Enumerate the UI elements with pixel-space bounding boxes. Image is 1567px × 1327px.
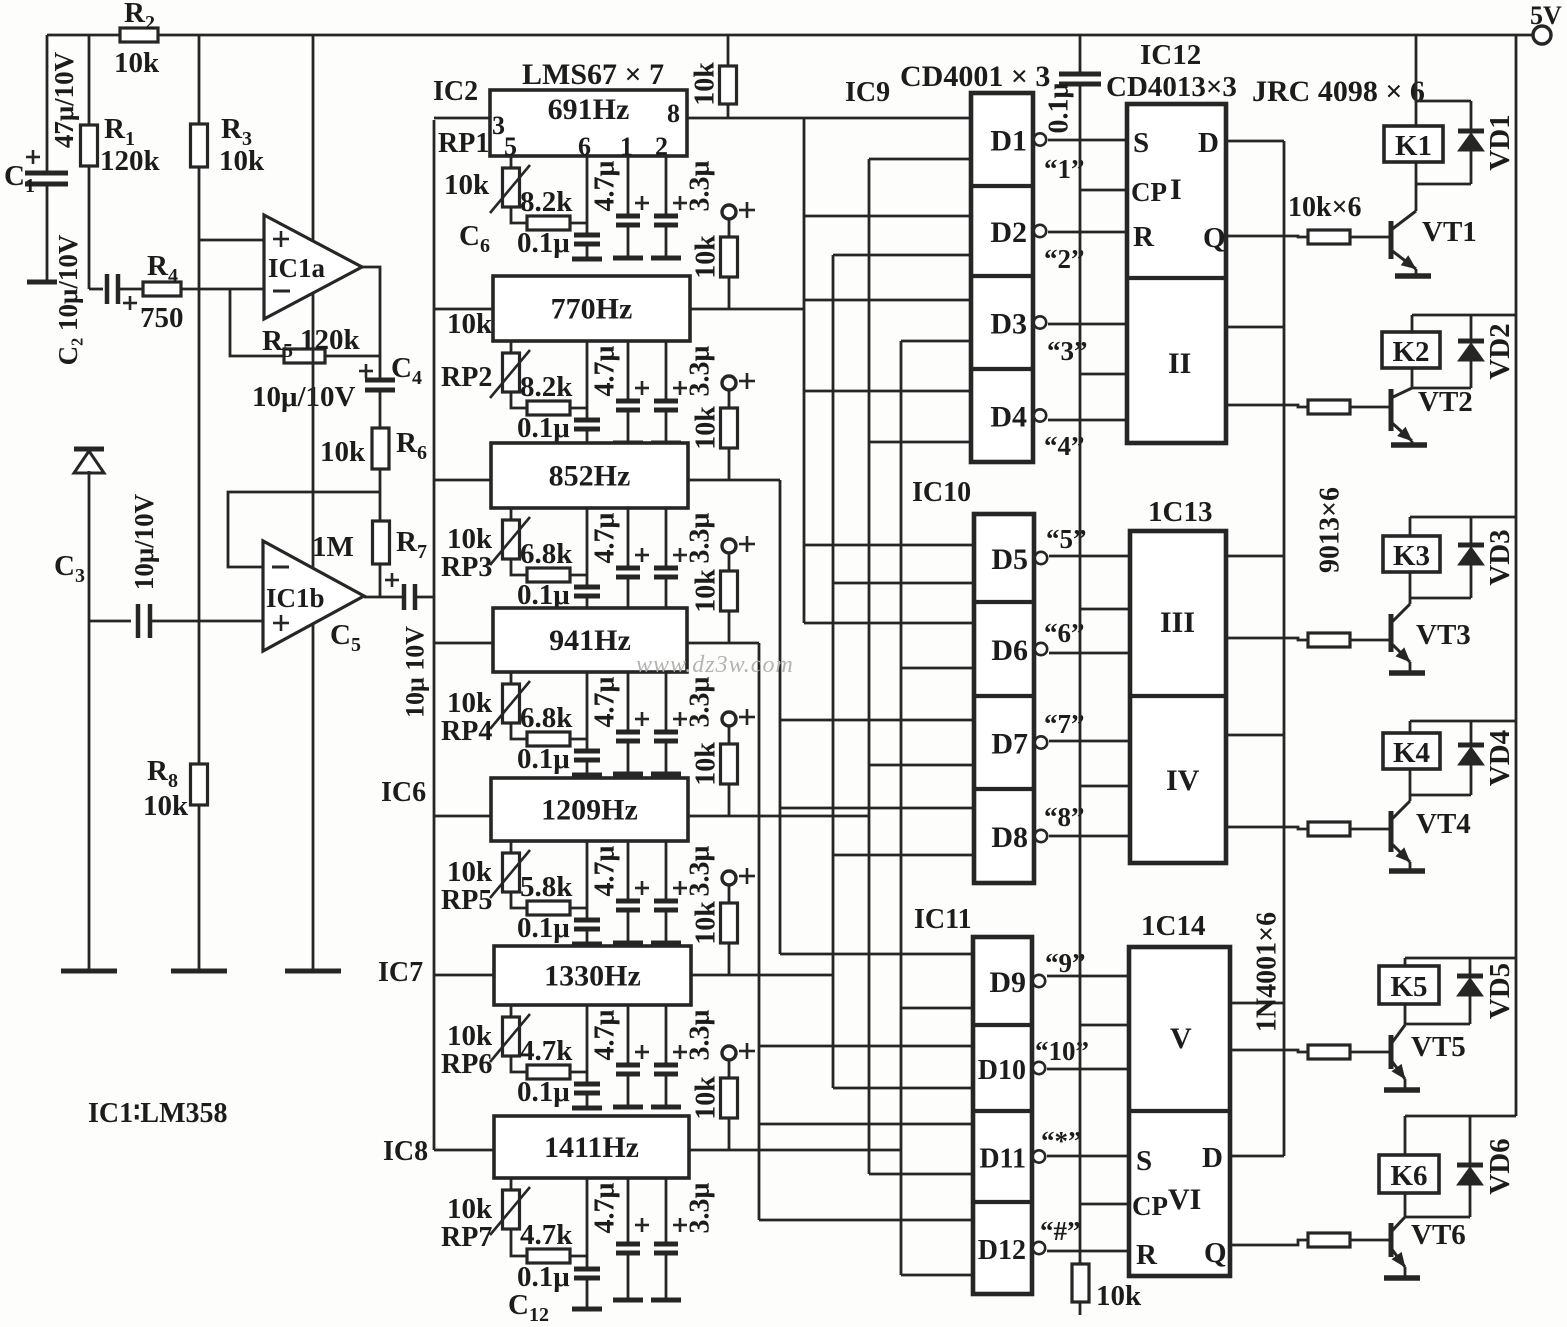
ground VT2	[1391, 442, 1427, 448]
wire CP input	[1080, 189, 1128, 192]
wire pin3 1411Hz from audio rail	[434, 1149, 494, 1152]
wire gate cell separator	[971, 367, 1033, 371]
resistor 10k base VT1	[1308, 230, 1350, 244]
wire clock bus top	[1079, 35, 1082, 72]
wire C3 to IC1b	[150, 620, 263, 623]
wire pin1 line stage 2	[627, 341, 630, 401]
capacitor 0.1u stage 2	[574, 418, 600, 423]
flip-flop IC14	[1129, 947, 1230, 1276]
svg-text:10k: 10k	[691, 235, 722, 279]
wire RP4 to series resistor	[511, 723, 527, 739]
node open terminal pullup 7	[722, 1046, 736, 1060]
svg-text:D12: D12	[978, 1235, 1026, 1266]
wire IC1a feedback to R5	[230, 289, 284, 356]
svg-text:120k: 120k	[300, 324, 361, 356]
wire gate input stub	[901, 340, 971, 343]
svg-text:10k: 10k	[1096, 1280, 1142, 1312]
svg-text:10k: 10k	[691, 569, 722, 613]
wire rail x199 from top	[198, 35, 201, 124]
wire C2 input row	[89, 288, 103, 291]
svg-text:0.1μ: 0.1μ	[517, 912, 570, 944]
svg-text:“2”: “2”	[1044, 244, 1085, 274]
wire CP input	[1080, 1203, 1128, 1206]
wire pin1 line stage 7	[627, 1178, 630, 1244]
wire bus vertical C x833	[832, 255, 835, 1088]
svg-text:3.3μ: 3.3μ	[685, 1182, 716, 1233]
svg-text:R2: R2	[124, 0, 155, 34]
wire gate input stub	[901, 667, 974, 670]
wire K4 bottom	[1410, 794, 1471, 797]
svg-text:C1: C1	[4, 160, 35, 197]
wire base VT1	[1350, 236, 1390, 239]
svg-text:K3: K3	[1393, 540, 1430, 572]
resistor R3	[191, 124, 208, 167]
svg-text:IC10: IC10	[912, 477, 971, 508]
potentiometer RP6 10k	[510, 1005, 513, 1017]
wire pin1 line stage 3	[627, 508, 630, 568]
relay K3	[1383, 536, 1440, 572]
wire base VT6	[1350, 1239, 1390, 1242]
wire pin2 line stage 5	[665, 841, 668, 901]
svg-text:10k: 10k	[447, 523, 493, 555]
wire pin1 line stage 5	[627, 841, 630, 901]
svg-text:D5: D5	[991, 543, 1028, 576]
svg-text:1209Hz: 1209Hz	[541, 794, 638, 827]
potentiometer RP7 10k	[510, 1178, 513, 1190]
svg-text:D2: D2	[990, 216, 1027, 249]
svg-text:R5: R5	[262, 325, 293, 362]
svg-text:K2: K2	[1392, 336, 1429, 368]
svg-text:10k×6: 10k×6	[1288, 192, 1362, 223]
wire gate output to flipflop	[1048, 139, 1127, 142]
capacitor 3.3u stage 7	[673, 1224, 687, 1227]
wire emitter VT6	[1404, 1267, 1407, 1276]
wire right supply rail x1516	[1515, 35, 1518, 1116]
ground VT3	[1389, 670, 1425, 676]
resistor 10k pullup stage4	[728, 553, 731, 571]
capacitor 4.7u stage 5	[635, 887, 649, 890]
svg-text:D1: D1	[990, 125, 1027, 158]
wire gate cell separator	[974, 694, 1034, 698]
wire K2 top	[1412, 314, 1516, 317]
wire gate input stub	[869, 441, 971, 444]
wire IC1b feedback loop	[228, 492, 380, 567]
wire pin3 852Hz from audio rail	[434, 479, 491, 482]
wire pin1 line stage 4	[627, 672, 630, 732]
svg-text:K6: K6	[1390, 1160, 1427, 1192]
svg-text:10k: 10k	[447, 856, 493, 888]
svg-text:R7: R7	[396, 526, 427, 563]
wire gate output to flipflop	[1049, 555, 1130, 558]
resistor 8.2k	[527, 216, 570, 230]
wire pin3 691Hz from audio rail	[434, 117, 490, 120]
potentiometer RP3 10k	[510, 508, 513, 520]
wire RP6 to series resistor	[511, 1056, 527, 1072]
wire gate column outline	[971, 93, 1033, 462]
svg-text:47μ/10V: 47μ/10V	[49, 51, 79, 148]
capacitor C2	[105, 274, 110, 304]
svg-text:3.3μ: 3.3μ	[685, 676, 716, 727]
svg-text:R: R	[1136, 1239, 1158, 1271]
transistor VT1	[1415, 184, 1418, 211]
wire Q output VT4	[1226, 827, 1308, 829]
svg-text:R8: R8	[147, 755, 178, 792]
tone decoder IC block 691Hz	[490, 90, 687, 156]
svg-text:VD3: VD3	[1484, 529, 1516, 585]
wire emitter VT4	[1409, 862, 1412, 869]
wire gate input stub	[759, 1123, 973, 1126]
wire gate input stub	[901, 1007, 973, 1010]
wire gate cell separator	[974, 787, 1034, 791]
svg-text:4.7μ: 4.7μ	[590, 512, 621, 563]
tone decoder IC block 1209Hz	[491, 778, 688, 841]
wire clock bus	[1079, 84, 1082, 1264]
wire gate input stub	[869, 1173, 973, 1176]
resistor 10k base VT6	[1308, 1233, 1350, 1247]
svg-text:I: I	[1170, 173, 1182, 206]
resistor 8.2k	[527, 401, 570, 415]
wire K5 bottom	[1405, 1023, 1470, 1026]
svg-text:4.7μ: 4.7μ	[590, 845, 621, 896]
svg-text:10k: 10k	[691, 406, 722, 450]
svg-text:IC12: IC12	[1140, 39, 1201, 71]
svg-text:IC1b: IC1b	[266, 583, 325, 613]
wire 5.8k to pin6 line	[570, 907, 587, 910]
wire +5V top supply rail	[47, 34, 120, 37]
svg-text:VD5: VD5	[1484, 963, 1516, 1019]
svg-text:II: II	[1168, 347, 1191, 380]
wire gate input stub	[759, 1045, 973, 1048]
svg-text:691Hz: 691Hz	[548, 93, 630, 126]
svg-text:D11: D11	[979, 1144, 1026, 1175]
svg-text:4.7μ: 4.7μ	[590, 160, 621, 211]
resistor 4.7k	[527, 1249, 570, 1263]
wire base VT5	[1350, 1051, 1390, 1054]
svg-text:www.dz3w.com: www.dz3w.com	[636, 652, 794, 678]
svg-text:10k: 10k	[219, 145, 265, 177]
svg-text:10k: 10k	[447, 687, 493, 719]
resistor R6	[372, 428, 389, 469]
svg-text:8.2k: 8.2k	[520, 371, 573, 403]
svg-text:CP: CP	[1131, 177, 1167, 207]
svg-text:R4: R4	[147, 250, 178, 287]
capacitor 4.7u stage 6	[635, 1051, 649, 1054]
svg-text:K4: K4	[1393, 737, 1430, 769]
flip-flop IC13	[1130, 531, 1226, 863]
wire emitter VT1	[1415, 269, 1418, 274]
ground VT1	[1395, 273, 1431, 279]
resistor 10k base VT3	[1308, 633, 1350, 647]
resistor 10k base VT4	[1308, 822, 1350, 836]
wire gate cell separator	[973, 1109, 1032, 1113]
resistor 10k clock pulldown	[1072, 1264, 1089, 1302]
wire pin6 line stage 6	[586, 1005, 589, 1084]
wire base VT3	[1350, 639, 1390, 642]
wire K1 bottom	[1416, 183, 1471, 186]
svg-text:VT6: VT6	[1411, 1219, 1466, 1251]
svg-text:IC9: IC9	[845, 77, 890, 108]
wire gate input stub	[869, 158, 971, 161]
svg-text:4.7μ: 4.7μ	[590, 1182, 621, 1233]
resistor 10k pullup stage6	[728, 885, 731, 903]
wire gate output to flipflop	[1048, 419, 1127, 422]
svg-text:K1: K1	[1395, 130, 1432, 162]
svg-text:1M: 1M	[312, 531, 354, 563]
svg-text:RP4: RP4	[441, 716, 492, 747]
svg-text:C3: C3	[54, 550, 85, 587]
transistor VT5	[1404, 1024, 1407, 1025]
svg-text:V: V	[1170, 1022, 1192, 1055]
svg-text:1330Hz: 1330Hz	[544, 960, 641, 993]
svg-text:852Hz: 852Hz	[549, 460, 631, 493]
wire gate output to flipflop	[1049, 740, 1130, 743]
wire emitter VT3	[1409, 662, 1412, 671]
relay K2	[1382, 332, 1440, 368]
svg-text:“1”: “1”	[1044, 154, 1085, 184]
capacitor C4	[359, 370, 373, 373]
svg-text:“3”: “3”	[1047, 336, 1088, 366]
wire Q output VT2	[1226, 405, 1308, 407]
wire 8.2k to pin6 line	[570, 407, 587, 410]
svg-text:10k: 10k	[447, 1193, 493, 1225]
tone decoder IC block 941Hz	[493, 608, 687, 672]
potentiometer RP1 10k	[510, 156, 513, 168]
svg-text:0.1μ: 0.1μ	[1044, 82, 1075, 133]
wire rail x89	[88, 35, 91, 125]
wire pin2 line stage 4	[665, 672, 668, 732]
wire CP input	[1080, 1024, 1128, 1027]
wire K5 top	[1405, 957, 1516, 960]
tone decoder IC block 770Hz	[493, 276, 690, 341]
svg-text:C4: C4	[391, 352, 422, 389]
capacitor 4.7u stage 4	[635, 718, 649, 721]
resistor R1	[81, 125, 98, 166]
wire gate input stub	[780, 953, 973, 956]
capacitor 0.1u clock	[1059, 72, 1101, 77]
transistor VT4	[1409, 795, 1412, 801]
wire D pin	[1226, 555, 1284, 558]
wire gate input stub	[833, 1087, 973, 1090]
diode VD5	[1469, 958, 1472, 976]
wire gate input stub	[833, 582, 974, 585]
svg-text:RP2: RP2	[441, 362, 492, 393]
wire 4.7k to pin6 line	[570, 1255, 587, 1258]
wire opamp V- line x313 lower	[312, 293, 315, 568]
wire Q output VT6	[1230, 1240, 1308, 1245]
svg-text:4.7k: 4.7k	[520, 1035, 573, 1067]
wire gate input stub	[804, 622, 974, 625]
wire gate input stub	[833, 854, 974, 857]
diode VD6	[1469, 1116, 1472, 1165]
ground bar left 3	[285, 969, 341, 974]
svg-text:IC6: IC6	[381, 777, 426, 808]
svg-text:10k: 10k	[691, 742, 722, 786]
wire RP1 to series resistor	[511, 207, 527, 223]
transistor VT2	[1389, 389, 1394, 431]
svg-text:RP7: RP7	[441, 1222, 492, 1253]
svg-text:Q: Q	[1203, 222, 1226, 254]
svg-text:RP6: RP6	[441, 1049, 492, 1080]
diode VD3	[1470, 517, 1473, 545]
capacitor 3.3u stage 2	[673, 387, 687, 390]
svg-text:S: S	[1136, 1145, 1152, 1177]
svg-text:120k: 120k	[100, 145, 161, 177]
potentiometer RP2 10k	[510, 341, 513, 353]
svg-text:CP: CP	[1132, 1191, 1168, 1221]
wire opamp V+ line x313	[312, 35, 315, 242]
svg-text:0.1μ: 0.1μ	[517, 743, 570, 775]
svg-text:1C14: 1C14	[1141, 910, 1205, 942]
svg-text:VD4: VD4	[1484, 730, 1516, 786]
svg-text:LMS67 × 7: LMS67 × 7	[522, 58, 664, 91]
resistor 10k pullup stage3	[728, 390, 731, 408]
svg-text:IC8: IC8	[383, 1136, 428, 1167]
svg-text:“7”: “7”	[1044, 709, 1085, 739]
wire pin6 line stage 2	[586, 341, 589, 420]
wire gate column outline	[973, 937, 1032, 1294]
wire RP2 to series resistor	[511, 392, 527, 408]
svg-text:3.3μ: 3.3μ	[685, 512, 716, 563]
tone decoder IC block 852Hz	[491, 443, 688, 508]
node open terminal pullup 6	[722, 871, 736, 885]
svg-text:6.8k: 6.8k	[520, 538, 573, 570]
resistor R7	[373, 521, 390, 564]
svg-text:4.7μ: 4.7μ	[590, 345, 621, 396]
relay K1	[1384, 126, 1443, 162]
node 5V terminal	[1533, 26, 1551, 44]
wire K6 top	[1405, 1115, 1516, 1118]
capacitor C1	[26, 156, 40, 159]
wire gate cell separator	[973, 1023, 1032, 1027]
wire gate cell separator	[971, 184, 1033, 188]
resistor R5	[284, 349, 325, 363]
wire bus vertical E x780	[779, 480, 782, 954]
wire gate output to flipflop	[1047, 975, 1129, 978]
svg-text:D9: D9	[989, 966, 1026, 999]
wire bus vertical A x804	[803, 118, 806, 623]
svg-text:5V: 5V	[1530, 1, 1562, 30]
svg-text:D10: D10	[978, 1055, 1026, 1086]
svg-text:1N4001×6: 1N4001×6	[1252, 912, 1283, 1032]
svg-text:0.1μ: 0.1μ	[517, 227, 570, 259]
tone decoder IC block 1411Hz	[494, 1116, 689, 1178]
svg-text:10k: 10k	[444, 169, 490, 201]
wire C4 to R6	[379, 390, 382, 428]
wire K4 top	[1410, 720, 1516, 723]
svg-text:10μ/10V: 10μ/10V	[129, 493, 159, 590]
wire 6.8k to pin6 line	[570, 574, 587, 577]
svg-text:VT5: VT5	[1411, 1031, 1466, 1063]
capacitor 4.7u stage 1	[635, 202, 649, 205]
svg-text:VT1: VT1	[1422, 216, 1477, 248]
svg-text:4.7μ: 4.7μ	[590, 1009, 621, 1060]
wire pin8 output row 1330Hz	[691, 974, 833, 977]
potentiometer RP4 10k	[510, 672, 513, 684]
node open terminal pullup 2	[722, 205, 736, 219]
op-amp IC1b	[263, 541, 364, 651]
svg-text:1: 1	[620, 132, 633, 161]
wire pin1 line stage 1	[627, 156, 630, 216]
ground VT5	[1384, 1087, 1420, 1093]
wire emitter VT2	[1411, 441, 1414, 443]
svg-text:C5: C5	[330, 619, 361, 656]
resistor R2	[120, 28, 158, 42]
capacitor 0.1u stage 7	[574, 1267, 600, 1272]
wire bus vertical D x901	[900, 341, 903, 1275]
wire pin2 line stage 3	[665, 508, 668, 568]
svg-text:10k: 10k	[691, 901, 722, 945]
wire K6 bottom	[1405, 1216, 1470, 1219]
svg-text:3.3μ: 3.3μ	[685, 160, 716, 211]
resistor 10k pullup stage2	[728, 219, 731, 237]
svg-text:8: 8	[667, 99, 680, 128]
capacitor 0.1u stage 1	[574, 233, 600, 238]
wire pin6 line stage 3	[586, 508, 589, 587]
wire gate input stub	[759, 1219, 973, 1222]
flip-flop IC12	[1127, 104, 1226, 443]
diode VD2	[1470, 315, 1473, 341]
wire IC1b output to C5	[364, 596, 402, 599]
wire gate input stub	[833, 254, 971, 257]
resistor 10k pullup stage1	[727, 35, 730, 66]
wire pin8 output row 941Hz	[687, 642, 759, 645]
transistor VT3	[1409, 598, 1412, 604]
svg-text:“6”: “6”	[1044, 618, 1085, 648]
resistor 10k pullup stage5	[728, 726, 731, 744]
svg-text:10k: 10k	[447, 1020, 493, 1052]
svg-text:R: R	[1133, 221, 1155, 253]
svg-text:3.3μ: 3.3μ	[685, 845, 716, 896]
capacitor 0.1u stage 5	[574, 918, 600, 923]
capacitor 0.1u stage 3	[574, 585, 600, 590]
wire IC1b plus input	[89, 620, 131, 623]
capacitor 0.1u stage 6	[574, 1082, 600, 1087]
wire gate input stub	[780, 719, 974, 722]
wire gate cell separator	[971, 274, 1033, 278]
svg-text:4.7μ: 4.7μ	[590, 676, 621, 727]
wire gate cell separator	[974, 600, 1034, 604]
wire 6.8k to pin6 line	[570, 738, 587, 741]
svg-text:770Hz: 770Hz	[551, 293, 633, 326]
relay K5	[1379, 966, 1439, 1004]
svg-text:5.8k: 5.8k	[520, 871, 573, 903]
resistor 10k pullup stage7	[728, 1060, 731, 1078]
wire pin8 output row 691Hz	[687, 117, 971, 120]
wire 8.2k to pin6 line	[570, 222, 587, 225]
svg-text:10k: 10k	[447, 308, 493, 340]
wire IC1a noninverting input	[199, 239, 264, 242]
wire base VT4	[1350, 828, 1390, 831]
svg-text:D4: D4	[990, 401, 1027, 434]
ground VT4	[1389, 868, 1425, 874]
svg-text:“*”: “*”	[1041, 1126, 1082, 1156]
wire gate cell separator	[973, 1200, 1032, 1204]
resistor 10k base VT2	[1308, 400, 1350, 414]
wire left rail x47	[46, 35, 49, 171]
svg-text:D: D	[1198, 127, 1219, 159]
capacitor 3.3u stage 1	[673, 202, 687, 205]
svg-text:D: D	[1202, 1142, 1223, 1174]
wire gate input stub	[901, 1274, 973, 1277]
wire pin2 line stage 7	[665, 1178, 668, 1244]
ground bar left 1	[61, 969, 117, 974]
wire gate output to flipflop	[1049, 835, 1130, 838]
svg-text:IC11: IC11	[914, 904, 972, 935]
wire pin6 line stage 5	[586, 841, 589, 920]
capacitor 4.7u stage 7	[635, 1224, 649, 1227]
svg-text:K5: K5	[1390, 971, 1427, 1003]
wire bus vertical F x759	[758, 643, 761, 1220]
